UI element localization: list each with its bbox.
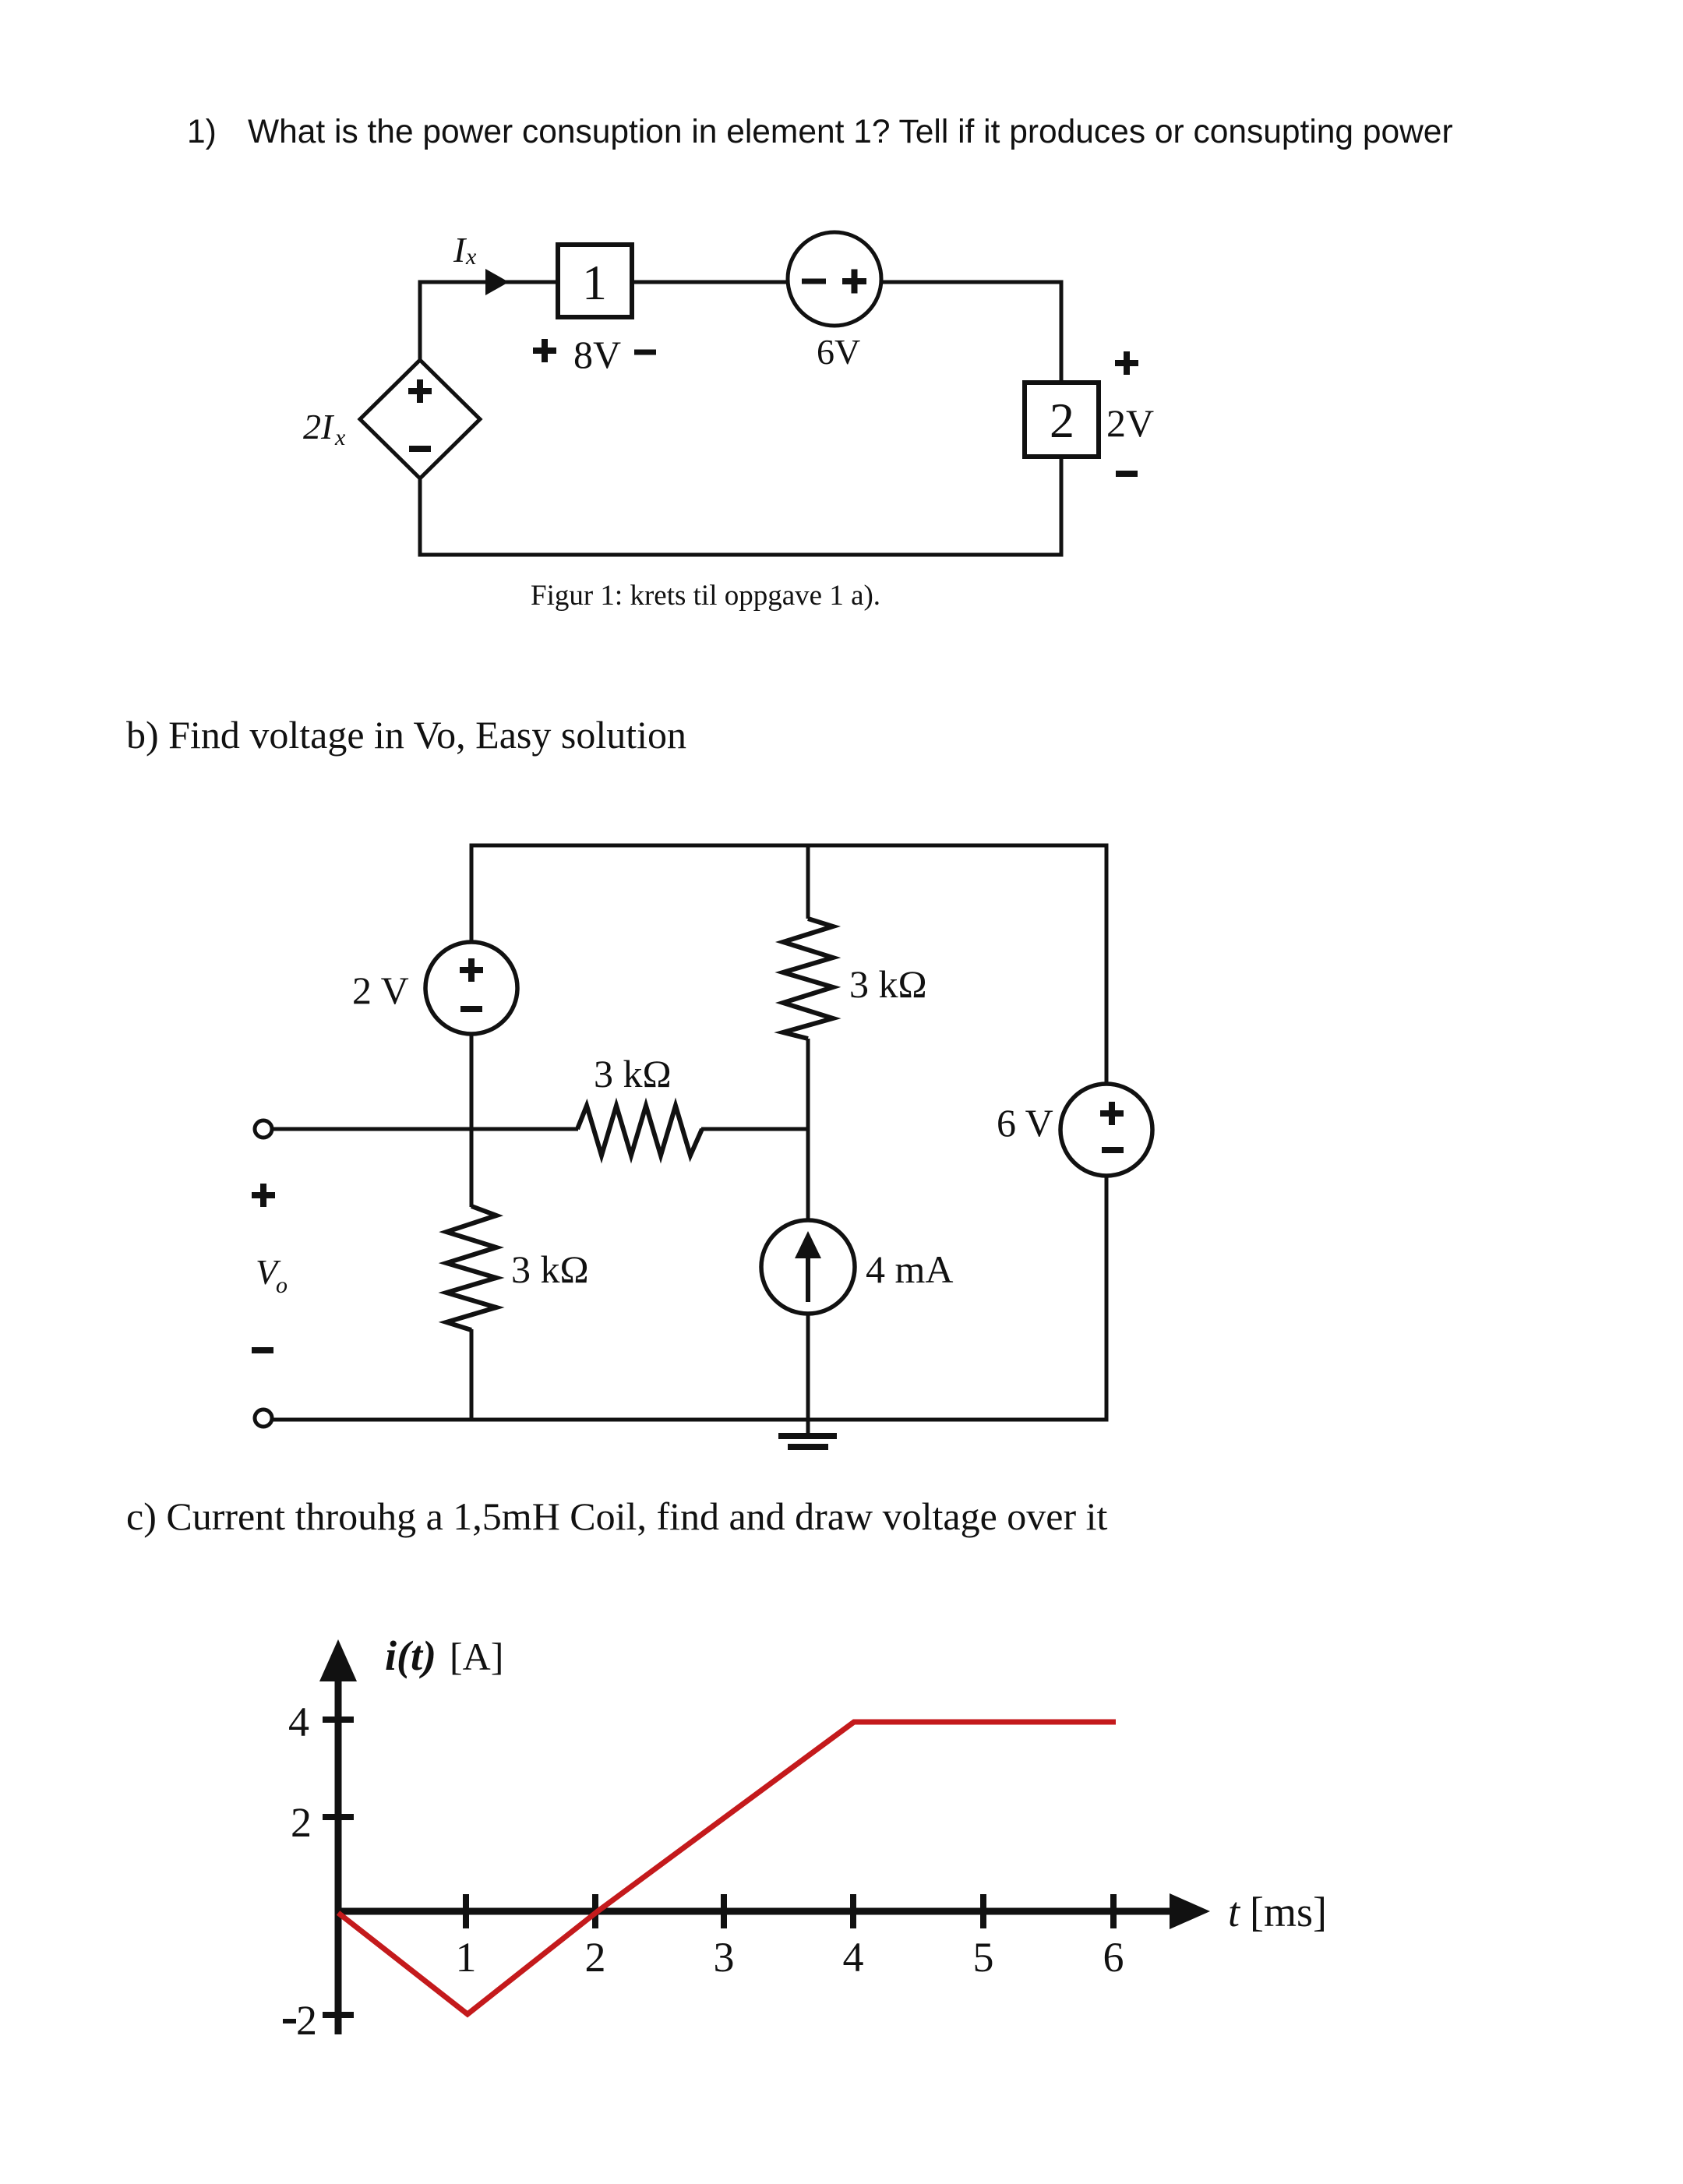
voltage source 2V [425, 942, 517, 1034]
minus sign inside 6V source [802, 279, 826, 284]
y tick 2 [323, 1814, 354, 1820]
wire output node middle horizontal left of 3k resistor [272, 1127, 578, 1131]
x tick 5 [980, 1894, 986, 1928]
svg-text:2V: 2V [1106, 401, 1154, 445]
wire from dependent source bottom down to bottom-left corner [418, 476, 422, 557]
svg-text:2I: 2I [303, 407, 335, 446]
output terminal top [255, 1120, 272, 1138]
element 1 box [558, 245, 632, 317]
x tick 2 [592, 1894, 598, 1928]
svg-text:2: 2 [1050, 393, 1074, 448]
plus sign above 2V label [1115, 351, 1138, 375]
plus sign inside 6V source (fig2) [1100, 1102, 1124, 1125]
svg-text:8V: 8V [573, 333, 621, 376]
current direction arrow Ix [485, 269, 509, 295]
svg-text:[A]: [A] [450, 1635, 503, 1678]
wire middle branch top (to 3k resistor) [806, 844, 810, 919]
svg-text:i(t): i(t) [385, 1632, 436, 1679]
resistor 3k (horizontal) [577, 1106, 702, 1156]
y axis [335, 1675, 342, 2034]
plus sign inside 2V source [460, 958, 483, 982]
wire middle branch (3k resistor to middle node and 4mA source) [806, 1039, 810, 1222]
wire right branch bottom (6V source to bottom wire) [1105, 1175, 1109, 1422]
svg-text:3 kΩ: 3 kΩ [594, 1052, 672, 1096]
x tick 6 [1110, 1894, 1117, 1928]
x tick 3 [721, 1894, 727, 1928]
wire middle branch bottom (4mA source to ground) [806, 1313, 810, 1436]
svg-text:4: 4 [288, 1699, 309, 1745]
minus sign inside dependent source [409, 446, 431, 452]
plus sign of 8V label [533, 339, 556, 362]
minus sign of Vo [252, 1347, 273, 1353]
minus sign inside 2V source [460, 1006, 482, 1012]
svg-text:t: t [1228, 1889, 1241, 1935]
svg-text:6V: 6V [817, 332, 860, 372]
svg-text:2: 2 [291, 1799, 312, 1846]
y tick -2 [323, 2012, 354, 2018]
element 2 box [1025, 383, 1099, 457]
y number -2 [283, 2019, 296, 2023]
x tick 1 [463, 1894, 469, 1928]
plus sign inside 6V source [842, 270, 866, 294]
ground symbol [778, 1436, 837, 1447]
minus sign of 8V label [634, 350, 656, 355]
plus sign of Vo [252, 1184, 275, 1207]
svg-text:3 kΩ: 3 kΩ [511, 1247, 589, 1291]
svg-text:4: 4 [843, 1934, 864, 1981]
current waveform i(t) red curve [338, 1722, 1116, 2014]
svg-text:1): 1) [187, 114, 217, 150]
wire right vertical from top corner down to element 2 [1060, 280, 1064, 384]
wire left vertical from top corner down to dependent source top [418, 280, 422, 363]
svg-text:What is the power consuption i: What is the power consuption in element … [248, 114, 1453, 150]
voltage source 6V (fig1) [788, 232, 881, 326]
wire from element 1 to 6V source [630, 280, 789, 284]
wire top-left horizontal from dependent source to element 1 [418, 280, 559, 284]
wire from element 2 down to bottom-right corner [1060, 456, 1064, 557]
wire left branch middle (2V source to lower resistor) [470, 1032, 474, 1207]
arrow inside 4mA source [806, 1254, 810, 1302]
svg-text:x: x [334, 425, 346, 450]
svg-text:2: 2 [585, 1934, 606, 1981]
wire top horizontal (fig2) [470, 844, 1109, 848]
svg-text:o: o [276, 1272, 288, 1298]
wire bottom horizontal [418, 553, 1064, 557]
resistor 3k (lower left vertical) [446, 1206, 496, 1330]
svg-text:2 V: 2 V [352, 969, 409, 1012]
svg-text:x: x [465, 244, 477, 270]
current source 4mA [761, 1220, 855, 1314]
svg-text:6: 6 [1103, 1934, 1124, 1981]
wire left branch bottom (lower resistor to bottom wire) [470, 1329, 474, 1422]
wire right branch top (to 6V source) [1105, 844, 1109, 1086]
output terminal bottom [255, 1410, 272, 1427]
resistor 3k (top middle vertical) [783, 919, 833, 1039]
svg-text:5: 5 [973, 1934, 994, 1981]
svg-text:c) Current throuhg a 1,5mH Coi: c) Current throuhg a 1,5mH Coil, find an… [126, 1494, 1108, 1538]
wire from horizontal resistor to middle branch [701, 1127, 808, 1131]
wire from 6V source to top-right corner [880, 280, 1064, 284]
voltage source 6V (fig2) [1060, 1084, 1152, 1176]
dependent source 2Ix (diamond) [360, 360, 480, 478]
svg-text:1: 1 [582, 255, 607, 310]
svg-text:2: 2 [296, 1997, 317, 2044]
svg-text:3: 3 [714, 1934, 735, 1981]
x axis [335, 1908, 1173, 1915]
x axis arrowhead [1170, 1893, 1210, 1929]
svg-text:b) Find voltage in Vo, Easy so: b) Find voltage in Vo, Easy solution [126, 713, 686, 757]
svg-text:4 mA: 4 mA [866, 1247, 954, 1291]
svg-text:Figur 1: krets til oppgave 1 a: Figur 1: krets til oppgave 1 a). [531, 580, 880, 612]
svg-text:3 kΩ: 3 kΩ [849, 962, 927, 1006]
y axis arrowhead [319, 1639, 357, 1681]
minus sign below 2V label [1116, 471, 1138, 477]
y tick 4 [323, 1717, 354, 1723]
svg-text:1: 1 [456, 1934, 477, 1981]
svg-text:[ms]: [ms] [1250, 1889, 1327, 1935]
wire bottom horizontal (fig2) [272, 1418, 1109, 1422]
x tick 4 [850, 1894, 856, 1928]
svg-text:6 V: 6 V [997, 1101, 1053, 1145]
plus sign inside dependent source [408, 379, 432, 403]
wire left branch top (to 2V source) [470, 844, 474, 945]
minus sign inside 6V source (fig2) [1102, 1147, 1124, 1153]
